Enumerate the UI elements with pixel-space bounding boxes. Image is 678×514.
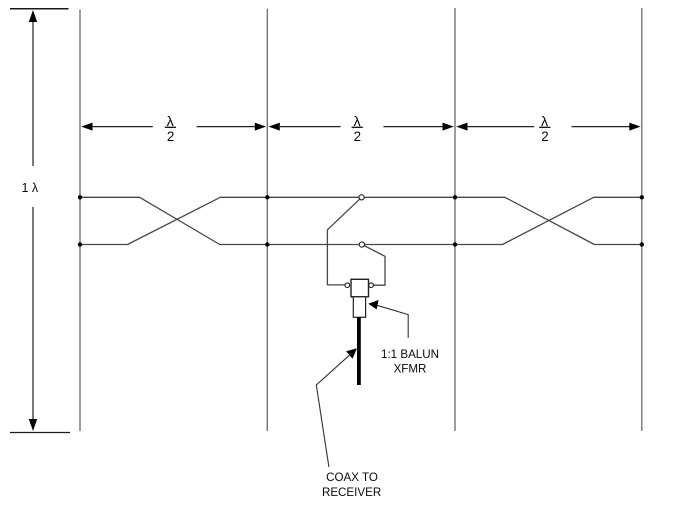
label lambda/2 span 3 <box>539 114 550 144</box>
wire phasing conductor B (E1 lower to E4 lower, transposed) <box>80 197 642 244</box>
antenna element 3 <box>454 8 456 431</box>
leader arrow to balun label <box>368 300 408 338</box>
wire balun tap upper <box>327 197 361 285</box>
balun transformer body <box>351 279 369 297</box>
svg-text:2: 2 <box>167 129 174 144</box>
coax cable <box>357 317 361 385</box>
svg-text:1 λ: 1 λ <box>22 181 39 195</box>
label lambda/2 span 1 <box>165 114 176 144</box>
junction dot E4 upper <box>640 195 644 199</box>
tap terminal circle upper <box>359 195 364 200</box>
label 1:1 BALUN XFMR <box>381 348 439 375</box>
tap terminal circle lower <box>359 242 364 247</box>
balun connector barrel <box>353 297 365 318</box>
junction dot E3 upper <box>453 195 457 199</box>
svg-text:2: 2 <box>541 129 548 144</box>
svg-text:RECEIVER: RECEIVER <box>322 486 381 499</box>
leader arrow to coax label <box>316 348 357 467</box>
junction dot E3 lower <box>453 242 457 246</box>
dimension arrow 1-lambda vertical <box>29 10 37 431</box>
junction dot E2 upper <box>265 195 269 199</box>
svg-text:1:1 BALUN: 1:1 BALUN <box>381 348 439 361</box>
junction dot E1 lower <box>78 242 82 246</box>
svg-text:COAX TO: COAX TO <box>326 471 378 484</box>
wire phasing conductor A (E1 upper to E4 upper, transposed) <box>80 197 642 244</box>
junction dot E2 lower <box>265 242 269 246</box>
junction dot E1 upper <box>78 195 82 199</box>
dimension arrow lambda/2 span 1 <box>81 123 266 131</box>
antenna element 2 <box>266 9 268 431</box>
wire balun tap lower <box>362 245 385 286</box>
label lambda/2 span 2 <box>352 114 363 144</box>
balun terminal left <box>345 283 350 288</box>
dimension arrow lambda/2 span 2 <box>269 123 454 131</box>
dimension arrow lambda/2 span 3 <box>456 123 640 131</box>
top reference line <box>10 8 69 10</box>
antenna element 1 <box>79 10 81 432</box>
junction dot E4 lower <box>640 242 644 246</box>
svg-text:2: 2 <box>354 129 361 144</box>
label COAX TO RECEIVER <box>322 471 381 499</box>
svg-text:XFMR: XFMR <box>394 362 427 375</box>
bottom reference line <box>10 432 70 434</box>
balun terminal right <box>369 283 374 288</box>
antenna element 4 <box>641 8 643 431</box>
